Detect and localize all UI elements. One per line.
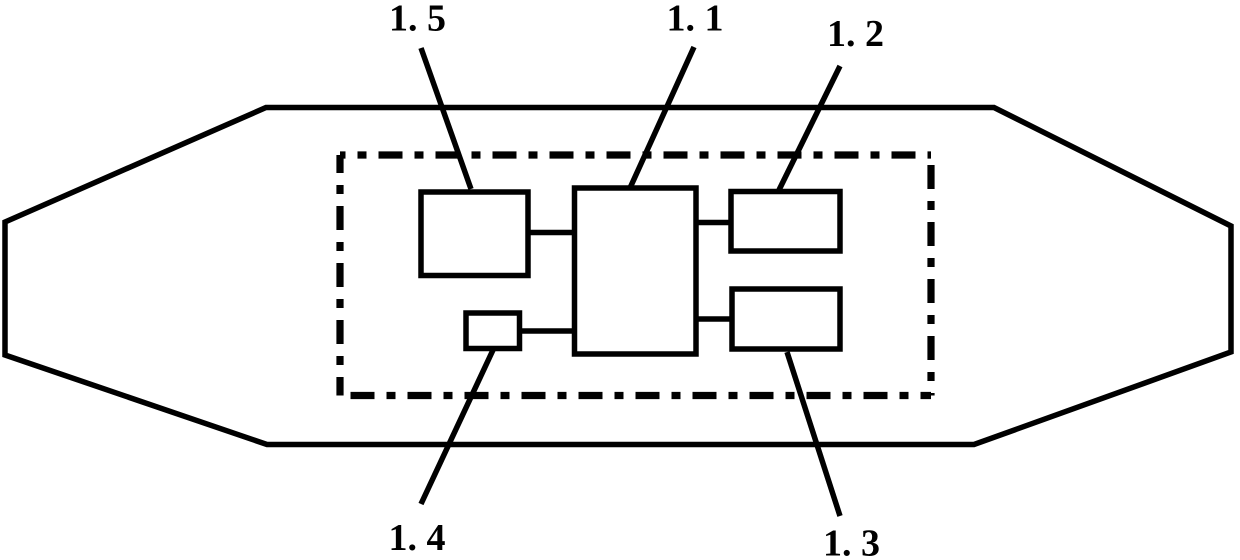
leader line 1.2 [779,66,840,190]
block 1.3 [732,289,840,349]
dash-dot enclosure boundary bottom [340,392,931,399]
leader line 1.5 [421,48,471,189]
svg-text:1. 1: 1. 1 [667,0,724,40]
dash-dot enclosure boundary top [340,151,931,158]
leader line 1.1 [630,47,694,188]
svg-text:1. 5: 1. 5 [389,0,446,40]
leader line 1.3 [787,352,840,516]
block 1.1 [575,188,697,354]
block 1.4 [466,313,520,349]
svg-text:1. 4: 1. 4 [389,517,446,559]
svg-text:1. 2: 1. 2 [827,13,884,55]
wire 1.1 to 1.2 [696,220,731,226]
wire 1.1 to 1.3 [696,316,732,322]
block 1.2 [731,192,840,252]
dash-dot enclosure boundary right [927,155,934,396]
wire 1.5 to 1.1 [528,230,575,236]
block 1.5 [421,192,528,276]
svg-text:1. 3: 1. 3 [823,523,880,560]
dash-dot enclosure boundary left [336,155,343,396]
leader line 1.4 [421,350,493,504]
outer vessel hull outline [5,108,1231,445]
wire 1.4 to 1.1 [520,328,575,334]
